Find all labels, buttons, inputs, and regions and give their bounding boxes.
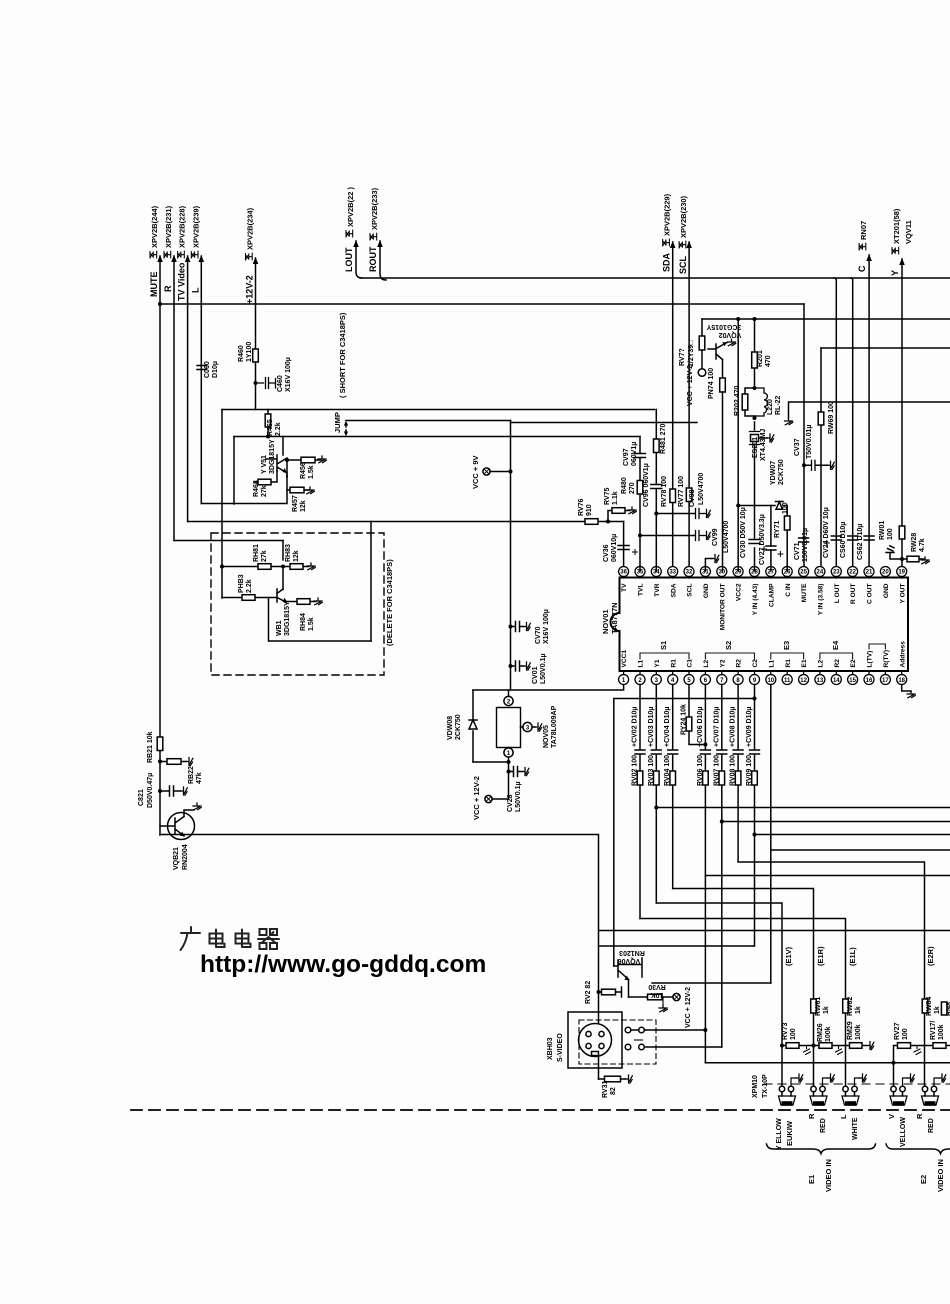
label RV07 [713, 755, 720, 786]
pin 27 circle (top) [766, 567, 776, 577]
svg-text:D10µ: D10µ [212, 361, 219, 378]
resistor RV07 [719, 771, 725, 785]
svg-text:20: 20 [882, 570, 889, 576]
svg-text:R1: R1 [785, 659, 792, 668]
node dot TVL-CV99 [638, 534, 642, 538]
svg-text:R460: R460 [238, 345, 245, 362]
svg-text:XPV2B(22 ): XPV2B(22 ) [346, 186, 355, 227]
pin 4 circle (bottom) [668, 675, 678, 685]
svg-text:32: 32 [686, 570, 693, 576]
svg-text:Y OUT: Y OUT [899, 584, 906, 604]
label VCC+12V-2 reg [472, 776, 481, 820]
svg-text:+CV07 D10µ: +CV07 D10µ [713, 707, 720, 747]
connector RCA jack 1 [779, 1086, 784, 1091]
wire dashed jack row [764, 1083, 950, 1085]
svg-text:VCC + 12V-2: VCC + 12V-2 [685, 987, 692, 1028]
ground CV28 [522, 768, 529, 776]
svg-text:150V0.01µ: 150V0.01µ [802, 528, 809, 562]
ground RM29 [867, 1042, 874, 1050]
svg-text:R2: R2 [736, 659, 743, 668]
ground RV30 [662, 997, 664, 1005]
label CV36 [603, 544, 610, 562]
connector XBH03 dashed box [579, 1020, 656, 1064]
node dot RY24-L2 [703, 743, 707, 747]
ground VQB21 [193, 803, 201, 810]
label RW28 [911, 533, 918, 552]
capacitor CV02 [635, 750, 645, 754]
svg-text:RV77 100: RV77 100 [678, 476, 685, 507]
arrowhead TV-Video [185, 255, 191, 262]
resistor R481 [654, 439, 660, 453]
transistor VQV06 [614, 958, 642, 997]
svg-text:RV76: RV76 [578, 499, 585, 516]
svg-text:11: 11 [784, 678, 791, 684]
wire y402 shield [789, 402, 950, 418]
pin 5 circle (bottom) [684, 675, 694, 685]
wire bus y946 [599, 945, 755, 947]
node dot CV01 [509, 664, 513, 668]
label YELLOW jack1 [776, 1118, 783, 1150]
connector XBH03 S-VIDEO outer box [568, 1012, 622, 1068]
label RV2 [585, 981, 592, 1004]
pin label L OUT (pin 23) [834, 584, 841, 604]
svg-text:CV37: CV37 [794, 438, 801, 456]
svg-text:R1: R1 [670, 659, 677, 668]
wire box left rail x222 [221, 410, 223, 599]
ground ES201 [767, 434, 774, 442]
svg-text:RW28: RW28 [911, 533, 918, 552]
svg-text:+CV04 D10µ: +CV04 D10µ [664, 707, 671, 747]
svg-text:+CV03 D10µ: +CV03 D10µ [648, 707, 655, 747]
label RV78 [661, 476, 668, 507]
svg-text:10: 10 [767, 678, 774, 684]
resistor RV2 [599, 987, 622, 997]
label E3 [782, 641, 791, 650]
label RV7x [679, 348, 686, 366]
power terminal circle x702 [698, 369, 706, 377]
arrowhead SCL [686, 241, 692, 248]
ground R457 [306, 487, 314, 494]
label PHB3 [238, 574, 245, 593]
wire bus y875 [705, 875, 950, 877]
brace E1 [767, 1144, 876, 1154]
label RB22 [188, 766, 195, 784]
label R jack2 [807, 1113, 816, 1119]
label E1 [807, 1175, 816, 1184]
resistor RV73 [786, 1043, 799, 1049]
node dot L220 bottom [753, 416, 757, 420]
pin label L1 (pin 2) [638, 659, 645, 667]
label C460 [277, 375, 284, 392]
resistor RM26 [819, 1043, 832, 1049]
wire bus y304 MUTE feed [160, 303, 804, 305]
wire R vertical [173, 256, 175, 541]
label RV30 (rot180) [648, 983, 665, 990]
svg-text:CV70: CV70 [535, 626, 542, 644]
capacitor CV98 [696, 509, 704, 519]
pin 12 circle (bottom) [799, 675, 809, 685]
arrowhead SDA [670, 241, 676, 248]
resistor R460 [253, 349, 259, 362]
resistor R480 [637, 481, 643, 495]
bracket S2 [705, 653, 754, 659]
svg-text:(E2R): (E2R) [926, 946, 935, 966]
regulator NOV05 TA78L009AP body [497, 708, 521, 748]
svg-text:RN2004: RN2004 [182, 844, 189, 870]
wire y1047 svideo [645, 1046, 722, 1048]
svg-text:R OUT: R OUT [850, 584, 857, 605]
svg-text:SCL: SCL [687, 584, 694, 597]
label YDW07 [770, 461, 777, 485]
label NOV01 [601, 609, 610, 634]
pin 17 circle (bottom) [880, 675, 890, 685]
svg-text:VQV02: VQV02 [719, 331, 742, 338]
resistor RM29 [850, 1043, 863, 1049]
svg-text:R(TV): R(TV) [883, 650, 890, 668]
svg-text:VCC + 12V-2: VCC + 12V-2 [472, 776, 481, 820]
label RW01 [879, 521, 886, 540]
svg-text:L50V4700: L50V4700 [723, 521, 730, 553]
connector RCA jack 2 [811, 1086, 816, 1091]
power VCC+12V-2 terminal [485, 795, 492, 802]
label SHORT FOR C3418PS [338, 312, 347, 398]
label RV02 [632, 755, 639, 786]
pin label MUTE (pin 25) [801, 583, 808, 602]
svg-text:060V1µ: 060V1µ [631, 442, 638, 466]
label EUKIW jack1 [785, 1120, 794, 1146]
node label VQV11 [904, 220, 913, 244]
svg-text:+CV08 D10µ: +CV08 D10µ [730, 707, 737, 747]
wire bus y888 to E1R [673, 889, 814, 1087]
pin label R1 (pin 11) [785, 659, 792, 668]
svg-text:CV28: CV28 [507, 794, 514, 812]
svg-text:L220: L220 [767, 399, 774, 415]
brace E2 [886, 1144, 950, 1154]
resistor R456 (emitter to gnd) [287, 459, 321, 461]
svg-text:E1: E1 [807, 1175, 816, 1184]
svg-text:25: 25 [800, 570, 807, 576]
label RV06 [697, 755, 704, 786]
svg-text:T50V0.01µ: T50V0.01µ [806, 425, 813, 459]
node label to-XPV2B(234) [246, 207, 255, 260]
svg-text:C1: C1 [687, 659, 694, 668]
ground CV70 [524, 623, 531, 631]
svg-text:100: 100 [902, 1028, 909, 1040]
node dot CV28 [507, 760, 511, 764]
wire bus y807 [656, 807, 950, 809]
pin label Y1 (pin 3) [654, 659, 661, 667]
watermark char dian2 [236, 934, 249, 944]
svg-text:RY24 10k: RY24 10k [681, 704, 688, 735]
pin 9 circle (bottom) [750, 675, 760, 685]
label CS62 [857, 524, 864, 560]
svg-text:RW84: RW84 [926, 997, 933, 1016]
pin label Y IN (3.58) (pin 24) [818, 584, 825, 616]
wire pin9 column down [754, 685, 756, 947]
bracket S1 [640, 653, 689, 659]
pin 35 circle (top) [635, 567, 645, 577]
pin 28 circle (top) [750, 567, 760, 577]
transistor VQV02 [708, 343, 727, 379]
pin 32 circle (top) [684, 567, 694, 577]
svg-text:RM29: RM29 [847, 1021, 854, 1040]
label PN74 [708, 368, 715, 399]
svg-text:RB22: RB22 [188, 766, 195, 784]
node label to-XT201(58) [892, 208, 901, 254]
ground tick row1 [804, 1046, 811, 1055]
jumper JUMP arrows [345, 423, 347, 434]
capacitor CV24 [831, 536, 841, 540]
resistor R465 [267, 410, 269, 437]
label VQV02 (rot180) [706, 323, 741, 330]
svg-text:RV09 100: RV09 100 [746, 755, 753, 786]
svg-text:12: 12 [800, 678, 807, 684]
pin label Address (pin 18) [899, 641, 906, 668]
svg-text:L50V0.1µ: L50V0.1µ [515, 782, 522, 813]
label R468 [253, 480, 260, 497]
svg-text:CV01: CV01 [532, 666, 539, 684]
svg-text:+12V-2: +12V-2 [245, 275, 255, 304]
svg-text:1k: 1k [855, 1006, 862, 1014]
wire crystal gnd branch [760, 437, 768, 439]
svg-text:CV27 D50V3.3µ: CV27 D50V3.3µ [759, 514, 766, 565]
wire pin10 column [770, 685, 772, 984]
label CV99 [712, 528, 719, 546]
svg-text:RH81: RH81 [253, 544, 260, 562]
plus CV30 [762, 547, 767, 552]
pin 25 circle (top) [799, 567, 809, 577]
label RM29 [847, 1021, 854, 1040]
label R457 [292, 495, 299, 512]
svg-text:CLAMP: CLAMP [768, 583, 775, 607]
label C821 [138, 789, 145, 806]
pin 11 circle (bottom) [782, 675, 792, 685]
wire y698 E-switch feed [614, 699, 755, 967]
capacitor CV03 [651, 750, 661, 754]
arrowhead +12V-2 [253, 257, 259, 264]
wire y521 TV-Video bus [188, 521, 624, 523]
svg-text:XPV2B(228): XPV2B(228) [178, 205, 187, 248]
arrowhead LOUT [353, 240, 359, 247]
capacitor CV07 [717, 750, 727, 754]
pin 34 circle (top) [651, 567, 661, 577]
node label ROUT [368, 246, 378, 272]
ground C821 [181, 787, 188, 795]
wire L drop from 278 [834, 278, 836, 571]
ground regulator pin3 [535, 723, 542, 731]
svg-text:WHITE: WHITE [852, 1117, 859, 1140]
svg-text:( SHORT FOR C3418PS): ( SHORT FOR C3418PS) [338, 312, 347, 398]
svg-text:RH83: RH83 [285, 544, 292, 562]
svg-text:WB1: WB1 [276, 620, 283, 636]
svg-text:X16V 100µ: X16V 100µ [543, 609, 550, 644]
svg-text:XPV2B(231): XPV2B(231) [164, 205, 173, 248]
resistor RV7x 1/2Y39 [699, 336, 705, 350]
svg-text:CV36: CV36 [603, 544, 610, 562]
svg-text:GND: GND [883, 583, 890, 598]
svg-text:VQB21: VQB21 [173, 847, 180, 870]
ground jack 4 hook [903, 1078, 908, 1086]
svg-text:Y ELLOW: Y ELLOW [776, 1118, 783, 1150]
svg-text:RV07 100: RV07 100 [713, 755, 720, 786]
label CV28 [507, 794, 514, 812]
capacitor CV27 [766, 546, 776, 550]
wire L vertical [200, 256, 202, 504]
wire y420 jump top [346, 420, 511, 422]
capacitor CV36 [618, 546, 629, 550]
svg-text:VCC + 12V-2: VCC + 12V-2 [687, 365, 694, 406]
pin label R(TV) (pin 17) [883, 650, 890, 668]
svg-text:10K: 10K [651, 991, 664, 998]
label S1 [659, 641, 668, 650]
wire bus y918 to E1L [640, 919, 846, 1087]
capacitor CV70 [511, 622, 524, 632]
node dot rail-R201 [753, 317, 757, 321]
svg-text:CV98: CV98 [689, 489, 696, 507]
svg-text:D50V0.47µ: D50V0.47µ [147, 773, 154, 808]
wire emitter down [286, 460, 288, 477]
resistor R202 (parallel branch) [745, 388, 755, 416]
pin 21 circle (top) [864, 567, 874, 577]
svg-text:33: 33 [669, 570, 676, 576]
svg-text:VIDEO IN: VIDEO IN [824, 1159, 833, 1192]
pin label L2 (pin 6) [703, 659, 710, 667]
wire bus y834 [755, 834, 950, 836]
wire pin6 column down [704, 685, 706, 1063]
svg-text:MONITOR OUT: MONITOR OUT [719, 584, 726, 631]
label E1R [816, 946, 825, 966]
label E1L [848, 947, 857, 966]
svg-text:RN8: RN8 [946, 1002, 950, 1016]
resistor RY71 [784, 516, 790, 530]
svg-text:XBH03: XBH03 [547, 1037, 554, 1060]
wire bus y821 [722, 821, 950, 823]
power VCC+9V terminal [483, 468, 490, 475]
svg-text:CV99: CV99 [712, 528, 719, 546]
power VCC+12V-2 circle svideo [673, 993, 680, 1000]
svg-text:3DG1815Y: 3DG1815Y [284, 601, 291, 636]
label R481 [660, 424, 667, 454]
watermark char guang [181, 927, 201, 950]
plus CV24 [824, 541, 829, 546]
capacitor CV96 [651, 485, 662, 489]
capacitor CV71 (series in MUTE line) [799, 538, 809, 542]
svg-text:270: 270 [629, 482, 636, 494]
label CV27 [759, 514, 766, 565]
svg-text:http://www.go-gddq.com: http://www.go-gddq.com [200, 951, 486, 978]
wire svideo pin to y1030 [631, 1029, 645, 1031]
node label MUTE [149, 272, 159, 298]
wire WB1 collector drop [282, 541, 284, 590]
svg-text:TA78L009AP: TA78L009AP [551, 705, 558, 748]
pin 30 circle (top) [717, 567, 727, 577]
svg-text:(E1L): (E1L) [848, 947, 857, 966]
plus CV27 [778, 552, 783, 557]
resistor RV75 to gnd [608, 511, 630, 522]
label RED jack5 [928, 1118, 935, 1133]
watermark char dian1 [210, 934, 223, 944]
capacitor C460 [256, 378, 276, 389]
label RH84 [300, 613, 307, 631]
label CV03 [648, 707, 655, 747]
label VCC+9V [471, 455, 480, 489]
svg-text:EUKIW: EUKIW [785, 1120, 794, 1146]
svg-text:VCC + 9V: VCC + 9V [471, 455, 480, 489]
ground pin18 [907, 691, 915, 698]
svg-text:JUMP: JUMP [333, 412, 342, 433]
label ES201 [752, 437, 759, 458]
wire MUTE drop to pin24 [803, 304, 805, 571]
svg-text:XPV2B(244): XPV2B(244) [150, 205, 159, 248]
svg-text:E2: E2 [919, 1175, 928, 1184]
node dot jack4 feed [892, 1061, 896, 1065]
label XBH03 [547, 1037, 554, 1060]
resistor RB22 to gnd [160, 761, 186, 763]
pin label C1 (pin 5) [687, 659, 694, 668]
capacitor CV28 [509, 767, 523, 777]
node label to-XPV2B(230) [679, 195, 688, 248]
node dot RB22 [158, 760, 162, 764]
svg-text:22: 22 [849, 570, 856, 576]
svg-text:C460: C460 [277, 375, 284, 392]
svg-text:PN74 100: PN74 100 [708, 368, 715, 399]
svg-text:CS62 D10µ: CS62 D10µ [857, 524, 864, 560]
arrowhead VQV02 emitter [722, 342, 727, 346]
svg-text:L(TV): L(TV) [867, 651, 874, 668]
bracket E4 [820, 653, 853, 659]
svg-text:VELLOW: VELLOW [900, 1117, 907, 1147]
ground RH84 [314, 598, 322, 605]
diode YDW07 [776, 502, 784, 510]
ground VQV02 emitter [728, 339, 736, 346]
svg-text:1k: 1k [934, 1006, 941, 1014]
wire bus y850 [771, 849, 950, 851]
pin 36 circle (top) [619, 567, 629, 577]
svg-text:ROUT: ROUT [368, 246, 378, 272]
label S2 [724, 641, 733, 650]
wire VCC12V-2 stub [492, 772, 509, 800]
svg-text:L2: L2 [703, 659, 710, 667]
label CV71 [794, 542, 801, 560]
svg-text:+CV02 D10µ: +CV02 D10µ [632, 707, 639, 747]
wire row E2 [894, 1046, 950, 1063]
pin 31 circle (top) [700, 567, 710, 577]
wire RH81 row y566 [222, 566, 283, 568]
node dot TVR-CV98 [654, 512, 658, 516]
svg-text:CV97: CV97 [623, 448, 630, 466]
op-amp IC NOV01 TA8777N body [620, 578, 909, 672]
wire y690 regulator to pin1 [473, 684, 624, 690]
ground jack 3 hook [855, 1078, 860, 1086]
capacitor CS60 [848, 536, 858, 540]
crystal ES201 [750, 432, 760, 445]
svg-text:CV24 D60V 10µ: CV24 D60V 10µ [823, 507, 830, 558]
svg-text:+CV09 D10µ: +CV09 D10µ [746, 707, 753, 747]
connector RCA jack 5 [922, 1086, 927, 1091]
node dot CV70 [509, 625, 513, 629]
svg-text:19: 19 [898, 570, 905, 576]
svg-text:C: C [857, 265, 867, 272]
wire R-line corner into y540 [174, 540, 283, 542]
label R465 [267, 419, 274, 436]
node label L [190, 287, 200, 293]
pin circle 2 regulator top [504, 696, 513, 705]
pin 13 circle (bottom) [815, 675, 825, 685]
svg-text:100: 100 [887, 528, 894, 540]
svg-text:RV02 100: RV02 100 [632, 755, 639, 786]
svg-text:36: 36 [620, 570, 627, 576]
svg-text:1/2Y39□: 1/2Y39□ [688, 340, 695, 367]
